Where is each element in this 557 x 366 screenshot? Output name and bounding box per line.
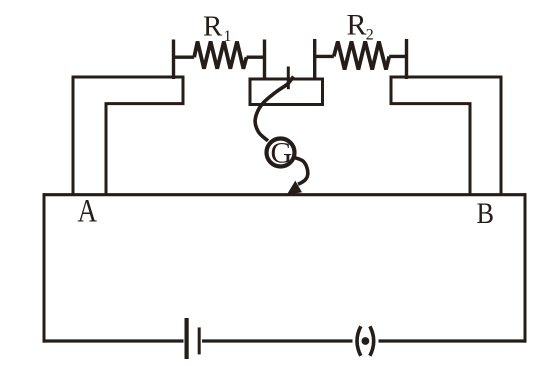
wire jockey to galvanometer (curved lead) [255,77,293,141]
resistor R2 [315,39,407,79]
wire bottom middle segment (battery to key) [201,339,354,342]
copper strip center (gap block between R1 and R2) [250,79,323,105]
svg-text:2: 2 [366,27,374,44]
svg-text:1: 1 [224,28,232,45]
battery (cell) on bottom wire [184,318,203,359]
jockey contact tick on center strip [287,67,290,90]
resistor R1 [174,40,265,80]
wire AB (bridge wire, node A to node B) [43,193,527,196]
wire bottom left segment (to battery) [43,339,185,342]
copper strip left (thick L bracket at end A) [73,77,183,196]
svg-text:B: B [477,197,495,230]
svg-text:R: R [347,8,367,41]
wire left side of loop [43,193,46,342]
key K (plug key symbol) on bottom wire [353,326,379,356]
svg-text:G: G [271,137,293,170]
wire right side of loop [524,193,527,342]
galvanometer G (circle) [267,139,295,167]
svg-text:R: R [203,11,223,43]
wire bottom right segment (key to B side) [377,339,526,342]
arrowhead of jockey pointer on wire AB [287,181,302,195]
svg-text:A: A [78,194,98,230]
copper strip right (thick L bracket at end B) [391,77,501,196]
wire galvanometer to arrow (curved lead) [295,158,308,185]
